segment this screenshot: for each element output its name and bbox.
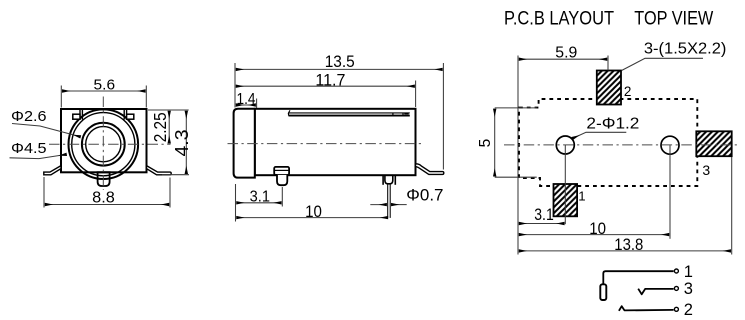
svg-text:2-Φ1.2: 2-Φ1.2 <box>586 115 639 132</box>
svg-text:8.8: 8.8 <box>92 189 115 206</box>
svg-text:5.9: 5.9 <box>555 45 577 62</box>
svg-text:4.3: 4.3 <box>172 130 192 157</box>
svg-text:Φ2.6: Φ2.6 <box>11 108 47 125</box>
svg-text:3.1: 3.1 <box>534 205 554 224</box>
svg-text:Φ4.5: Φ4.5 <box>11 140 47 157</box>
svg-text:10: 10 <box>305 202 322 221</box>
svg-text:3-(1.5X2.2): 3-(1.5X2.2) <box>644 41 727 58</box>
svg-text:Φ0.7: Φ0.7 <box>406 186 443 205</box>
svg-text:5.6: 5.6 <box>94 77 116 94</box>
svg-text:P.C.B LAYOUT: P.C.B LAYOUT <box>504 9 614 30</box>
svg-text:11.7: 11.7 <box>315 70 345 89</box>
svg-text:5: 5 <box>477 139 494 148</box>
svg-text:2: 2 <box>624 84 632 99</box>
svg-text:1: 1 <box>684 263 693 281</box>
svg-text:1: 1 <box>578 189 585 204</box>
svg-text:3: 3 <box>702 162 710 178</box>
svg-text:3: 3 <box>684 280 693 298</box>
svg-text:13.8: 13.8 <box>614 235 643 254</box>
svg-text:2: 2 <box>684 301 693 319</box>
svg-text:3.1: 3.1 <box>250 188 270 205</box>
svg-text:1.4: 1.4 <box>237 91 256 108</box>
svg-text:TOP VIEW: TOP VIEW <box>634 9 713 30</box>
svg-text:10: 10 <box>589 219 606 238</box>
svg-text:13.5: 13.5 <box>325 52 355 71</box>
svg-text:2.25: 2.25 <box>150 112 170 142</box>
